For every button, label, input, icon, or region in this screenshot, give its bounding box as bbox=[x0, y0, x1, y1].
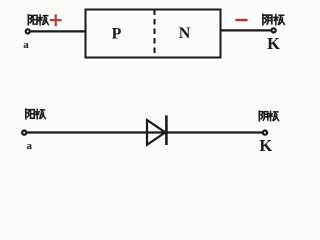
svg-text:a: a bbox=[26, 140, 32, 152]
svg-text:K: K bbox=[267, 34, 280, 53]
svg-text:a: a bbox=[23, 39, 29, 51]
svg-text:P: P bbox=[112, 25, 122, 42]
svg-text:K: K bbox=[259, 136, 272, 155]
svg-text:N: N bbox=[179, 25, 191, 42]
